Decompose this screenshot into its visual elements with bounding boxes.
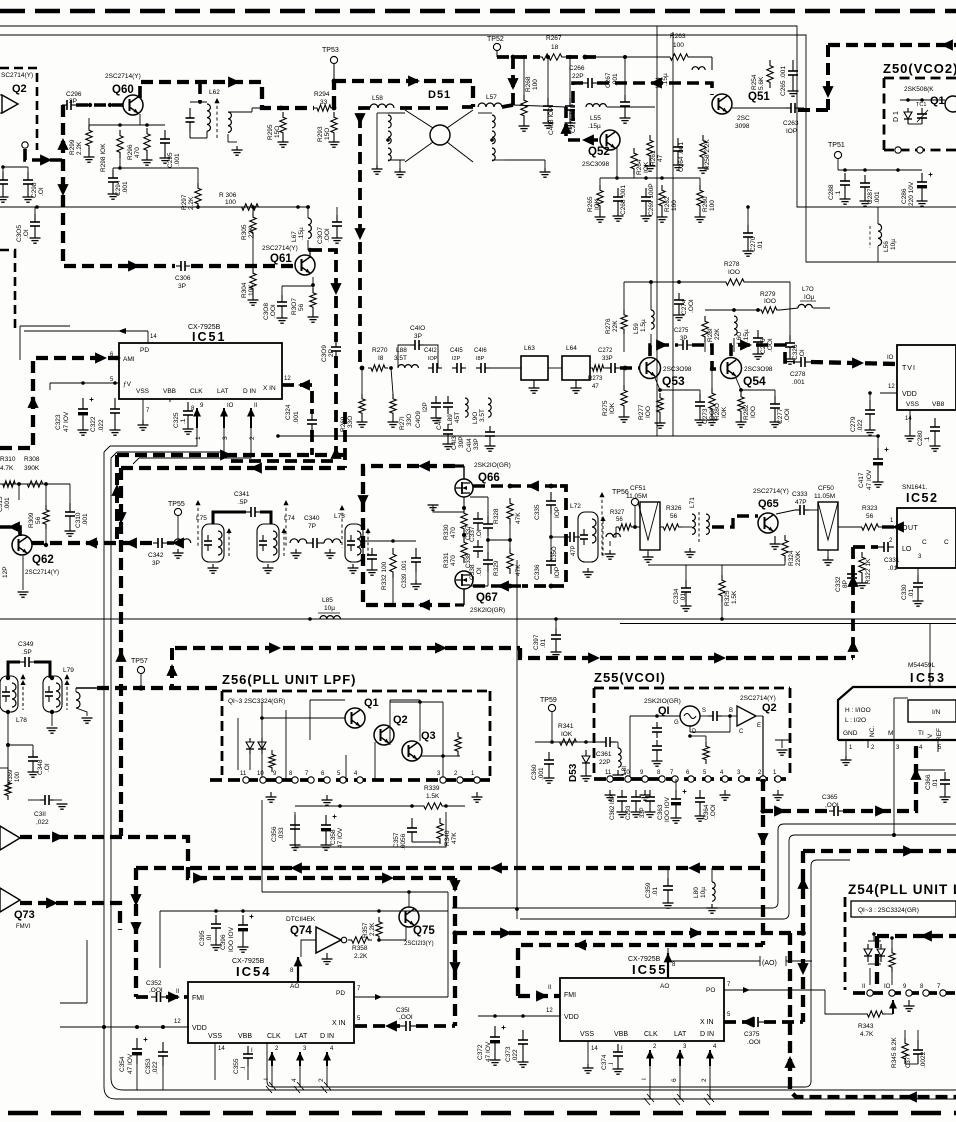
ground C417 — [877, 474, 879, 482]
wire LAT hook — [111, 428, 224, 458]
svg-text:QI~3 2SC3324(GR): QI~3 2SC3324(GR) — [228, 698, 285, 705]
test point TP56 — [631, 498, 638, 505]
ground Q74 — [326, 953, 328, 959]
junction IC53 M — [892, 833, 896, 837]
ground C273 — [699, 414, 701, 420]
resistor R324 — [782, 535, 788, 561]
bus y878 — [20, 837, 455, 878]
svg-text:18: 18 — [551, 44, 559, 51]
svg-text:D51: D51 — [428, 89, 451, 101]
capacitor C302 — [2, 172, 4, 180]
svg-text:C372: C372 — [477, 1044, 484, 1060]
svg-text:Z50(VCO2): Z50(VCO2) — [883, 61, 956, 76]
ground R268 — [523, 121, 525, 126]
svg-text:R358: R358 — [352, 945, 368, 952]
wire thin box z56 — [295, 812, 446, 847]
capacitor C275 series — [678, 344, 683, 346]
capacitor C365 series — [829, 810, 834, 812]
svg-text:22K: 22K — [714, 328, 721, 340]
svg-text:R345 8.2K: R345 8.2K — [891, 1037, 898, 1068]
pin VSS54 — [214, 1043, 216, 1080]
bus x455 vert — [453, 878, 457, 1026]
buffer Z55 Q2 — [737, 706, 756, 726]
capacitor L73 tail cap — [371, 548, 373, 555]
wire rail y57 thin — [596, 56, 668, 58]
wire long horizontal net — [0, 618, 956, 620]
wire y368 rail — [590, 367, 592, 369]
svg-text:L9O: L9O — [472, 412, 479, 424]
svg-text:8P: 8P — [842, 580, 849, 588]
wire base net y207 — [0, 206, 310, 208]
core L78 — [22, 676, 24, 710]
svg-text:C298: C298 — [31, 182, 38, 198]
wire top inner border line 2 — [0, 35, 956, 262]
ground L79 secondary — [76, 708, 87, 716]
transistor Z56 Q2 — [374, 725, 394, 745]
svg-text:12: 12 — [546, 1008, 553, 1014]
svg-text:Z55(VCOI): Z55(VCOI) — [594, 670, 666, 685]
svg-text:47 IOV: 47 IOV — [485, 1041, 492, 1062]
bus L58 to corner — [360, 108, 370, 368]
bus C y687 — [97, 686, 222, 690]
svg-text:LO: LO — [902, 546, 912, 553]
svg-text:2.2K: 2.2K — [76, 141, 83, 155]
resistor R323 series — [858, 524, 882, 530]
bus D51 left drop — [396, 107, 473, 108]
capacitor C273 — [699, 394, 701, 402]
svg-text:C4O9: C4O9 — [415, 411, 422, 428]
core L75 — [197, 502, 199, 548]
svg-text:220K: 220K — [795, 550, 802, 566]
bus Z55 out vert — [761, 779, 765, 945]
ground C414 — [489, 442, 491, 446]
svg-text:.022: .022 — [857, 419, 864, 432]
capacitor C395 — [215, 915, 217, 924]
wire R328 mid net — [488, 539, 510, 541]
capacitor C310 — [69, 503, 71, 512]
wire Z56 vert nets — [249, 754, 251, 770]
svg-text:4.7K: 4.7K — [0, 465, 14, 472]
resistor R298 — [117, 130, 123, 158]
svg-text:11.05M: 11.05M — [814, 493, 835, 500]
capacitor C372 electrolytic — [494, 1026, 496, 1037]
svg-text:3.5T: 3.5T — [394, 355, 407, 362]
bus Z54 pin row — [853, 991, 956, 995]
block Z54 subtitle box — [851, 901, 956, 917]
bus y933 — [455, 931, 803, 935]
svg-text:D 1: D 1 — [893, 111, 900, 122]
inductor L72 secondary — [606, 533, 620, 537]
IC IC53 inner box — [908, 700, 956, 722]
inductor L56 — [878, 224, 882, 246]
tank L79 — [43, 676, 62, 712]
inductor L88 — [398, 365, 418, 368]
bus TP53 riser — [334, 81, 473, 108]
wire y282 rail — [624, 281, 722, 283]
svg-text:C270: C270 — [750, 236, 757, 252]
svg-text:FMI: FMI — [192, 995, 204, 1002]
svg-text:C286: C286 — [901, 188, 908, 204]
resistor R282 — [738, 392, 744, 416]
ground C298 — [27, 192, 29, 197]
resistor R332 — [390, 548, 396, 578]
svg-text:R294: R294 — [314, 91, 330, 98]
svg-text:C4I3: C4I3 — [451, 436, 458, 450]
svg-text:47 IOV: 47 IOV — [337, 827, 344, 848]
resistor R304 — [250, 268, 256, 294]
ground Q65 — [774, 536, 776, 544]
ground D53 — [585, 770, 587, 776]
resistor R275 — [621, 385, 627, 411]
resistor R357 — [376, 917, 382, 941]
svg-text:TP55: TP55 — [168, 501, 185, 508]
resistor R325 — [719, 575, 725, 601]
svg-text:C342: C342 — [148, 552, 164, 559]
svg-text:C361: C361 — [596, 751, 612, 758]
svg-text:47: 47 — [657, 154, 664, 162]
svg-text:C268 .001: C268 .001 — [620, 185, 627, 215]
resistor R322 — [859, 552, 865, 578]
bus C365 rail — [761, 740, 916, 811]
svg-text:LAT: LAT — [295, 1033, 308, 1040]
transistor Z56 Q1 — [345, 708, 365, 728]
svg-text:.1: .1 — [180, 418, 187, 424]
svg-text:C356: C356 — [271, 826, 278, 842]
capacitor C351 series — [400, 1025, 406, 1027]
capacitor C349 bridge — [8, 662, 20, 678]
svg-text:56: 56 — [35, 516, 42, 524]
ground C395 — [215, 937, 217, 945]
tank L74 — [257, 524, 279, 562]
svg-text:2.2K: 2.2K — [354, 953, 368, 960]
wire frame F1 — [111, 458, 956, 1090]
svg-text:TVI: TVI — [902, 365, 916, 372]
tank L73 — [345, 524, 363, 562]
ground L63 L64 — [533, 380, 535, 388]
ground C366 — [944, 792, 946, 797]
svg-text:C359: C359 — [645, 882, 652, 898]
svg-text:REF: REF — [936, 728, 943, 741]
ground IC53 gnd pin — [845, 756, 847, 760]
wire L78 bottom — [7, 712, 9, 745]
svg-text:.001: .001 — [82, 513, 89, 526]
capacitor C263 series — [786, 107, 791, 109]
bus x790 vert — [790, 933, 956, 1097]
resistor Z55 r — [703, 742, 709, 764]
svg-text:C322: C322 — [90, 416, 97, 432]
svg-text:10K: 10K — [248, 284, 255, 296]
ground C295 — [164, 152, 166, 158]
svg-text:C339 .001: C339 .001 — [402, 560, 408, 588]
transistor Q52 — [600, 130, 620, 150]
svg-text:2SCI2I3(Y): 2SCI2I3(Y) — [404, 941, 434, 947]
svg-text:C3O9: C3O9 — [321, 345, 328, 362]
svg-text:C374: C374 — [601, 1054, 608, 1070]
svg-text:.0056: .0056 — [400, 833, 407, 850]
svg-text:14: 14 — [150, 334, 157, 340]
wire y168 net — [113, 167, 198, 169]
capacitor C353 — [162, 1042, 164, 1052]
capacitor C334 — [685, 580, 687, 588]
svg-text:Q61: Q61 — [270, 253, 292, 265]
wire R339 net — [295, 805, 420, 807]
resistor R276 — [621, 310, 627, 334]
ground L74 — [267, 564, 269, 568]
pin AO arrow IC54 — [294, 957, 303, 966]
wire Q52 nets — [599, 178, 601, 185]
wire Q65 out — [776, 510, 795, 514]
svg-text:Q51: Q51 — [748, 91, 770, 103]
svg-text:C364: C364 — [703, 804, 710, 820]
capacitor C264 — [677, 138, 679, 147]
junction x455 y933 — [452, 930, 457, 935]
svg-text:Q54: Q54 — [743, 374, 766, 388]
capacitor C278 series — [795, 361, 801, 363]
svg-text:R267: R267 — [546, 35, 562, 42]
wire thin frame P2 — [520, 835, 956, 919]
svg-text:C340: C340 — [304, 515, 320, 522]
svg-text:R326: R326 — [666, 505, 682, 512]
svg-text:R304: R304 — [241, 282, 248, 298]
svg-text:1.5µ: 1.5µ — [640, 319, 647, 332]
svg-text:L7O: L7O — [802, 286, 814, 293]
svg-text:.OI: .OI — [476, 567, 483, 576]
bus D51 top rail — [141, 82, 314, 108]
inductor L54 — [692, 67, 705, 70]
bus A to B — [520, 648, 853, 658]
svg-text:R275: R275 — [602, 400, 609, 416]
resistor R260 — [697, 185, 703, 211]
svg-text:R263: R263 — [670, 33, 686, 40]
capacitor C298 — [27, 172, 29, 180]
capacitor C274 — [678, 293, 680, 300]
svg-text:R270: R270 — [372, 347, 388, 354]
wire C416 L63 — [490, 367, 521, 369]
capacitor C332 — [851, 565, 853, 574]
svg-text:R28O: R28O — [714, 403, 721, 420]
svg-text:2.2K: 2.2K — [188, 196, 195, 210]
bus right entry — [828, 43, 956, 47]
svg-text:L71: L71 — [689, 497, 696, 508]
svg-text:2.2K: 2.2K — [369, 922, 376, 936]
bus XIN55 in — [724, 1020, 803, 1024]
pin IC53 stubs — [845, 740, 847, 756]
svg-text:C331: C331 — [884, 557, 900, 564]
inductor L79 secondary — [76, 692, 80, 708]
capacitor C307 — [336, 215, 338, 222]
svg-text:,022: ,022 — [152, 1061, 159, 1074]
capacitor C325 — [187, 402, 189, 411]
svg-text:47P: 47P — [795, 499, 807, 506]
ground C360 — [548, 772, 550, 778]
svg-text:Z54(PLL UNIT L: Z54(PLL UNIT L — [848, 882, 956, 897]
capacitor C352 series — [151, 996, 157, 998]
svg-text:22K: 22K — [612, 320, 619, 332]
inductor L70 — [798, 304, 812, 308]
svg-text:C326: C326 — [792, 344, 799, 360]
svg-text:4.7K: 4.7K — [860, 1031, 874, 1038]
capacitor C338b — [487, 552, 489, 560]
svg-text:100: 100 — [532, 79, 539, 90]
svg-text:C417: C417 — [858, 472, 865, 488]
svg-text:.OOI: .OOI — [767, 338, 774, 352]
svg-text:R325: R325 — [724, 590, 731, 606]
capacitor C336 — [550, 552, 552, 561]
svg-text:R339: R339 — [424, 785, 440, 792]
svg-text:R264: R264 — [636, 159, 643, 175]
capacitor C366 — [916, 769, 945, 771]
svg-text:R279: R279 — [760, 291, 776, 298]
capacitor Z55 g2 — [656, 740, 658, 746]
wire R345 C377 — [904, 1030, 906, 1038]
svg-text:.OOI: .OOI — [270, 304, 277, 318]
svg-text:I: I — [263, 1078, 270, 1080]
IC IC53 box — [838, 687, 956, 740]
capacitor C268 — [617, 188, 619, 197]
svg-text:.5P: .5P — [22, 649, 32, 656]
resistor R328 — [507, 498, 513, 524]
capacitor C340 series — [308, 542, 313, 544]
resistor R267 series — [538, 54, 566, 60]
ground L62 — [236, 146, 238, 150]
svg-text:I8P: I8P — [476, 356, 485, 362]
pin 14 wire — [147, 331, 149, 343]
svg-text:M54459L: M54459L — [908, 662, 935, 669]
svg-text:C4I4: C4I4 — [466, 438, 473, 452]
resistor R330 — [461, 508, 467, 534]
svg-text:L63: L63 — [524, 345, 535, 352]
bus Q61 collector down — [230, 250, 336, 461]
inductor L73 primary — [324, 539, 341, 543]
bus below IC51 upper — [117, 453, 345, 457]
svg-text:R 306: R 306 — [219, 192, 237, 199]
capacitor C311 — [40, 799, 45, 801]
core L74 — [285, 502, 287, 548]
svg-text:C3O5: C3O5 — [16, 225, 23, 242]
svg-text:470: 470 — [134, 147, 141, 158]
svg-text:IC53: IC53 — [910, 671, 946, 685]
svg-text:2SK2IO(GR): 2SK2IO(GR) — [474, 462, 511, 469]
ground R275 — [623, 411, 625, 417]
capacitor C286 electrolytic — [921, 173, 923, 182]
svg-text:C333: C333 — [792, 491, 808, 498]
ground C274 — [678, 311, 680, 315]
capacitor C294 — [112, 170, 114, 178]
bus Q67 gate right — [473, 584, 524, 588]
wire L71 in — [682, 526, 692, 528]
wire DIN hook — [133, 428, 251, 464]
resistor R345 — [902, 1038, 908, 1064]
bus LO route — [853, 547, 878, 658]
svg-text:C4I6: C4I6 — [474, 348, 487, 354]
resistor R299 — [86, 125, 92, 151]
svg-text:45T: 45T — [454, 412, 461, 423]
ground C362 group — [621, 808, 623, 812]
svg-text:15O: 15O — [324, 128, 331, 140]
svg-text:2: 2 — [318, 1078, 325, 1082]
capacitor C335 — [550, 492, 552, 501]
transistor Z56 Q3 — [402, 741, 422, 761]
wire bottom dashed border — [8, 1111, 956, 1115]
svg-text:.001: .001 — [792, 379, 805, 386]
svg-text:IC54: IC54 — [236, 964, 271, 979]
svg-text:C408 IOP: C408 IOP — [548, 106, 555, 135]
svg-text:.01: .01 — [932, 779, 939, 788]
bus Q53 collector loop — [650, 345, 678, 356]
ground CF51 — [647, 552, 649, 557]
ground C413 — [447, 440, 449, 444]
svg-text:VSS: VSS — [906, 401, 920, 408]
wire L73 tail — [363, 540, 416, 542]
bus L57 drop — [511, 57, 515, 105]
svg-text:L78: L78 — [16, 717, 27, 724]
svg-text:R340: R340 — [444, 830, 451, 846]
resistor R258 — [700, 135, 706, 163]
node Z50 pin 1 — [895, 147, 901, 153]
diode Z54 pair — [867, 944, 869, 949]
transistor Q75 — [399, 907, 419, 927]
tank L72 — [578, 512, 598, 562]
svg-text:QI: QI — [658, 705, 670, 717]
resistor R296 — [144, 128, 150, 156]
svg-text:TI: TI — [918, 730, 924, 737]
svg-text:C366: C366 — [925, 774, 932, 790]
ground C310 — [69, 525, 71, 531]
svg-text:56: 56 — [616, 517, 623, 523]
svg-text:R3O7: R3O7 — [291, 298, 298, 315]
svg-text:.1: .1 — [835, 190, 842, 196]
svg-text:470: 470 — [450, 555, 457, 566]
svg-text:C349: C349 — [18, 641, 34, 648]
wire R310 net — [0, 483, 70, 485]
svg-text:47K: 47K — [515, 512, 522, 524]
ground C364 — [699, 810, 701, 816]
svg-text:11: 11 — [605, 770, 612, 776]
bus y868 — [136, 866, 763, 870]
capacitor C354 electrolytic — [136, 1038, 138, 1049]
svg-text:R260: R260 — [702, 196, 709, 212]
capacitor Z55 g1 — [656, 722, 658, 728]
wire L70 out — [813, 307, 830, 309]
resistor R359 — [5, 778, 11, 800]
svg-text:X IN: X IN — [700, 1019, 714, 1026]
block left dashed box fragment — [0, 250, 15, 330]
svg-text:I2P: I2P — [422, 402, 429, 412]
svg-text:R305: R305 — [241, 224, 248, 240]
diode Z56 — [249, 738, 251, 742]
inductor L67 — [308, 218, 311, 238]
resistor R309 — [43, 505, 49, 529]
IC IC52 upper box — [897, 345, 956, 410]
bus E Q73 — [20, 903, 120, 930]
svg-text:1.5K: 1.5K — [426, 793, 440, 800]
svg-text:5.6K: 5.6K — [758, 76, 765, 90]
wire Q67 stub — [455, 603, 464, 606]
svg-text:R329: R329 — [493, 560, 500, 576]
wire thin frame P3 — [267, 860, 850, 1087]
svg-text:.01: .01 — [652, 887, 659, 896]
svg-text:C355: C355 — [233, 1058, 240, 1074]
bus AMI in — [0, 358, 119, 448]
svg-text:VSS: VSS — [136, 388, 150, 395]
svg-text:12: 12 — [174, 1019, 181, 1025]
ground R307 — [312, 312, 314, 317]
svg-text:VBB: VBB — [614, 1031, 628, 1038]
svg-text:B: B — [729, 708, 733, 714]
svg-text:Q66: Q66 — [478, 472, 500, 484]
tank L75 — [202, 524, 224, 562]
svg-text:LAT: LAT — [217, 388, 228, 395]
